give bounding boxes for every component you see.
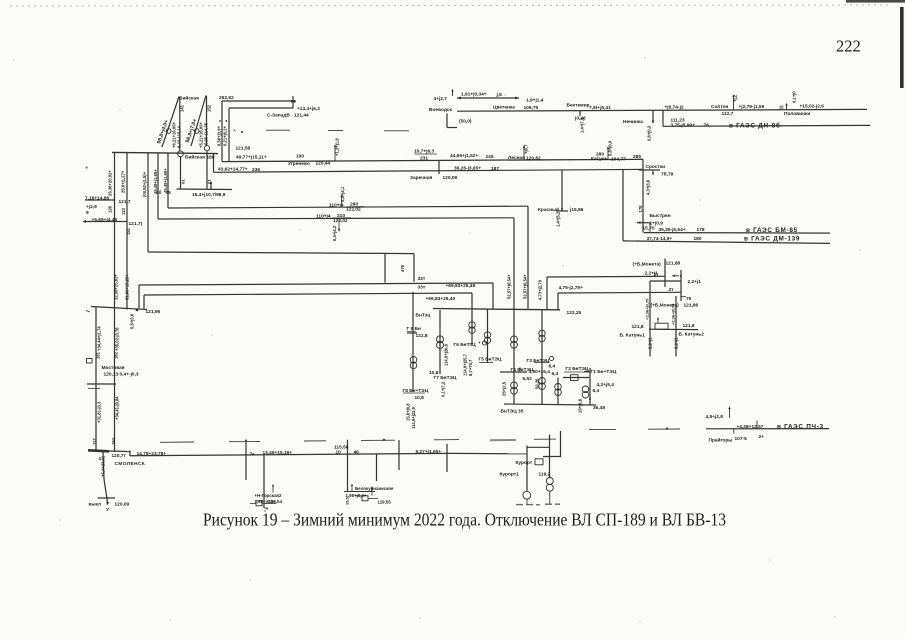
wire line 33t lower [144,293,472,295]
wire line L1 Ugrenevo-Lesnaya-Katun [222,159,643,161]
svg-text:+5,65+j4,45: +5,65+j4,45 [92,217,118,223]
svg-text:+15,02-j2,6: +15,02-j2,6 [800,104,825,110]
wire S-ZapadV loop top [222,100,293,102]
svg-text:Г3 БнТЭЦ: Г3 БнТЭЦ [527,358,550,364]
arrow G4 [519,369,521,373]
wire line to GAES DM-139 [623,241,830,244]
svg-text:+5,4+23,01: +5,4+23,01 [101,455,106,477]
svg-text:37,74-14,9+: 37,74-14,9+ [647,236,673,242]
svg-text:6,4: 6,4 [593,388,600,394]
arrowhead 15,75 up [649,222,651,225]
wire Katun2 stub down [675,330,677,357]
stub Belokurikhinskoye left [355,495,362,497]
transformer G3 upper circle [539,330,545,336]
svg-text:+2,36+j0,75: +2,36+j0,75 [671,303,676,325]
svg-text:7к: 7к [250,451,256,457]
breaker box N-Gorskaya [256,501,262,506]
svg-text:Прайгоры: Прайгоры [709,436,733,443]
wire drop N-Gorskaya [263,455,265,508]
svg-text:120,82: 120,82 [526,156,541,162]
wire tap Zarechnaya [438,160,440,174]
speck left margin [86,167,88,169]
wire Kurort1 drop lower [526,499,528,504]
arrowhead 4,5+j2,8 [728,406,730,409]
scan artifact: faint dotted line along top edge [10,5,890,6]
svg-text:187: 187 [491,166,499,172]
transformer Kurort upper circle [546,478,553,485]
svg-text:280: 280 [596,151,604,157]
wire tap at Srostki [639,169,660,171]
svg-text:2+: 2+ [759,434,765,440]
svg-text:Б. Катунь1: Б. Катунь1 [620,332,646,338]
arrowhead S-ZapadV top [291,100,295,103]
wire Kurort box tie [543,456,561,458]
wire left feeder 2 (vertical) [126,153,128,310]
transformer G7 lower circle [437,342,444,349]
wire drop Krasny [561,170,563,211]
wire line Voevodskoye-Polovinki 110kV [457,109,867,111]
generator G3 lower lower circle [539,383,546,390]
tick below N-Gorskaya [264,507,268,509]
svg-text:6,4: 6,4 [552,371,559,377]
stub Belokurikhinskoye right [368,498,378,500]
wire left drop of line 33t upper [138,285,140,308]
svg-text:4,2+j5,4: 4,2+j5,4 [597,382,615,388]
svg-text:76: 76 [704,123,710,129]
wire Mostovaya feeder A (vertical) [95,307,97,451]
svg-text:Г7 БнТЭЦ: Г7 БнТЭЦ [434,375,457,381]
wire dashed VL BV-13 seg4 [361,439,395,441]
svg-text:+31,81-j3,3: +31,81-j3,3 [97,401,102,423]
wire Kurort2 vertical upper [549,435,551,478]
svg-text:25+j2,5: 25+j2,5 [502,381,507,396]
svg-text:121,44: 121,44 [294,113,309,119]
svg-text:4,3+j3,6: 4,3+j3,6 [646,179,651,195]
wire bottom 110kV bus west part [130,453,450,455]
wire Kurort riser 2 [560,431,562,457]
svg-text:120,7т: 120,7т [112,453,127,459]
tick on line 210 [338,219,340,231]
arrowhead Krasny [561,209,563,212]
svg-text:7,5t+j5,41: 7,5t+j5,41 [589,105,611,111]
arrowhead tick 290 [340,194,342,197]
svg-text:33т: 33т [418,285,426,291]
svg-text:Половинки: Половинки [784,111,810,117]
tick near 121,58 [234,130,236,132]
wire G1 bottom stub [589,399,591,405]
wire drop x514 through BnTEC to 35kV bus [513,218,515,404]
svg-text:2т: 2т [669,287,675,293]
svg-text:236: 236 [252,167,260,173]
svg-text:Г8 Бн+ТЭЦ: Г8 Бн+ТЭЦ [403,388,429,394]
wire G3 column [541,310,543,405]
tick on line 290 [341,196,343,208]
wire line 110+j4 210 (to BnTEC) [158,218,514,219]
svg-text:476: 476 [400,264,405,272]
wire dashed VL BV-13 seg5 [434,439,459,441]
svg-text:Лесная: Лесная [508,155,525,161]
svg-text:+j2,9: +j2,9 [86,204,97,210]
svg-text:+Н-Горская2: +Н-Горская2 [255,493,282,498]
arrowhead Belokurikhinskoye 1 [351,484,353,487]
wire Biyskaya T2 to LV bus [206,151,208,190]
svg-text:Рисунок 19 – Зимний минимум 20: Рисунок 19 – Зимний минимум 2022 года. О… [203,510,726,530]
svg-text:2,2+j1: 2,2+j1 [688,279,702,285]
arrowhead left Tsvetenka [457,97,461,100]
underline G9 [407,330,417,332]
cross mark stem [245,440,247,442]
svg-text:Б. Катунь2: Б. Катунь2 [679,331,705,337]
svg-text:+69,83+25,40: +69,83+25,40 [426,296,456,302]
wire Katun1 vertical [649,281,651,329]
svg-text:7б,79: 7б,79 [661,171,674,178]
svg-text:5б: 5б [157,190,162,195]
wire B.Katun LV bus [649,328,698,330]
svg-text:Бийская: Бийская [185,153,205,160]
svg-text:121,95: 121,95 [146,309,161,315]
svg-text:121,88: 121,88 [666,261,681,267]
wire line 33t upper [139,283,493,285]
svg-text:(+Б,Монета): (+Б,Монета) [633,261,662,267]
wire drop Srostki [642,159,644,232]
wire tap 4,38 on PCh-3 line [756,421,758,429]
svg-text:39,26-j3,65+: 39,26-j3,65+ [454,165,481,171]
svg-text:180: 180 [207,155,215,161]
wire line 476 [148,252,414,254]
svg-text:120,04: 120,04 [269,499,283,504]
svg-text:+j2,79-j1,59: +j2,79-j1,59 [739,104,765,110]
wire S-ZapadV loop bottom [229,107,293,109]
wire tap 5,65+j4,45 [86,221,127,223]
arrowhead Smolensk feeder [106,502,109,506]
svg-text:178: 178 [697,227,705,233]
svg-text:4,50+15,4: 4,50+15,4 [529,369,551,375]
svg-text:3,75-j5,99+: 3,75-j5,99+ [671,122,696,128]
star mark on seg4 [383,439,385,441]
svg-text:120,09: 120,09 [115,502,130,508]
wire G2 feeder [563,377,589,379]
svg-text:114,9+j22,9: 114,9+j22,9 [411,406,416,429]
svg-text:126: 126 [108,205,113,213]
wire dashed segment VL SP-189 a [266,129,290,131]
wire Kurort2 vertical lower [549,491,551,503]
wire riser from Biyskaya bus to L2 [213,154,215,173]
svg-text:35,35-j6,54+: 35,35-j6,54+ [659,227,686,233]
wire tick G1 [584,371,590,373]
svg-text:Угренево: Угренево [288,161,310,167]
generator G upper circle x514 [511,382,518,389]
wire Mostovaya tap dash [88,388,100,390]
dot at B.Moneta corner [680,275,682,277]
svg-text:БнТЭЦ 35: БнТЭЦ 35 [501,408,524,414]
underline G3 [534,362,549,364]
arrowhead Neninka tap [652,121,654,124]
svg-text:(00,52+j1,5)+: (00,52+j1,5)+ [142,171,147,197]
svg-text:+4,38+12,57: +4,38+12,57 [737,424,764,430]
svg-text:15,4+j10,7/98,9: 15,4+j10,7/98,9 [192,192,226,198]
wire BnTEC 110kV bus [433,309,560,310]
arrowhead tick Katun [607,146,609,149]
wire riser x246 [245,442,247,481]
wire node 121,95 tie bus [91,307,147,310]
svg-text:Мостовая: Мостовая [102,365,125,371]
transformer G6 upper circle [469,322,475,328]
svg-text:j,5: j,5 [496,92,503,98]
svg-text:222: 222 [836,37,861,56]
svg-text:У: У [106,507,110,513]
wire Smolensk bus thick stub [88,450,109,451]
wire vertical Biyskaya T1 [179,97,181,152]
svg-text:Курорт: Курорт [516,460,533,466]
ground dash Kurort1 b [526,504,533,506]
svg-text:121,58: 121,58 [236,146,251,152]
svg-text:43,62+14,77+: 43,62+14,77+ [218,167,248,173]
strike line over 122,02a [345,206,364,208]
svg-text:112,7: 112,7 [722,111,734,117]
wire line 110+j4 290 (to BnTEC) [168,206,528,208]
transformer T514 upper circle [511,336,518,343]
wire Voevodskoye bracket horizontal [447,127,457,129]
tick Praygory [733,429,735,434]
arrow 4,5+j2,8 [729,408,731,418]
svg-text:б1: б1 [181,179,186,184]
ground dash Kurort1 c [536,504,540,506]
svg-text:120,09: 120,09 [443,175,458,181]
wire drop x547 to BnTEC bus [546,277,548,309]
arrowhead tap 5,65 [83,220,87,223]
svg-text:+j,2: +j,2 [733,94,738,102]
wire dashed VL BV-13 seg1 [160,441,194,443]
wire vertical Biyskaya T2 [206,96,208,146]
wire drop x558 to BnTEC bus end [557,293,559,309]
svg-text:119,2: 119,2 [539,471,551,477]
arrowhead right Tsvetenka [515,97,519,100]
svg-text:252,62: 252,62 [219,95,234,101]
svg-text:52,57+j6,54+: 52,57+j6,54+ [507,274,512,299]
wire stub N-Gorskaya box [250,503,256,505]
generator G3 lower upper circle [539,378,546,385]
wire dashed VL BV-13 seg8 [589,428,616,430]
tick arrow near 2,2+j1 [672,275,679,277]
svg-text:231: 231 [420,155,428,161]
svg-text:0,1+j0: 0,1+j0 [792,91,797,103]
generator G2 upper circle [555,384,562,391]
svg-text:121,8: 121,8 [683,323,695,329]
wire G6 column [471,309,473,344]
wire drop x376 [376,454,378,481]
svg-text:15+j9,8: 15+j9,8 [578,398,583,413]
wire drop x414 to line 33t [413,254,415,282]
wire Katun tie upper [650,280,681,282]
svg-text:162: 162 [114,351,119,359]
generator G2 lower circle [555,389,562,396]
arrowhead N-Gorskaya2 [272,484,274,487]
scan artifact: right margin black bar [900,7,904,88]
svg-text:120,44: 120,44 [316,160,331,166]
svg-text:4,75-j2,79+: 4,75-j2,79+ [559,285,584,291]
scan artifact: dark top-right edge strip [846,0,905,3]
svg-text:+2,36+j0,79: +2,36+j0,79 [645,298,650,320]
wire drop x493 to BnTEC bus [492,283,494,309]
svg-text:121,7): 121,7) [129,221,143,227]
svg-text:+j0,7: +j0,7 [524,144,529,154]
wire riser x399 [398,440,400,470]
arrowhead B.Katun box [657,317,659,320]
breaker box Mostovaya [87,359,93,364]
wire dashed VL BV-13 seg6 [490,439,516,441]
tick j0,7 at Lesnaya [523,147,525,160]
svg-text:112: 112 [92,438,97,445]
tick 1,3+j1,8 on L1 [334,146,336,161]
svg-text:1,91+j0,34+: 1,91+j0,34+ [461,92,487,98]
wire Biyskaya 110kV bus [112,152,218,153]
wire B.Moneta drop 1 [664,259,666,288]
svg-text:+j0,74-j2: +j0,74-j2 [665,105,684,111]
wire dashed segment VL SP-189 c [384,130,409,132]
arrowhead Belokurikhinskoye 2 [371,486,373,489]
svg-text:5,5+j3,6: 5,5+j3,6 [130,313,135,329]
svg-text:7,16+14,86: 7,16+14,86 [85,195,109,201]
breaker box Kurort [535,459,543,465]
svg-text:75: 75 [686,296,692,302]
wire measurement arrow line Tsvetenka [457,97,519,99]
svg-text:в ГАЭС ДН-8б: в ГАЭС ДН-8б [729,121,781,129]
arrowhead 2,2 tick [672,275,675,277]
svg-text:Ненинка: Ненинка [623,119,643,125]
wire slant branch Biyskaya T2 [191,96,206,147]
ground dash Kurort2 b [555,503,560,505]
svg-text:122,25: 122,25 [567,310,582,316]
svg-text:Г5 БнТЭЦ: Г5 БнТЭЦ [479,356,502,362]
svg-text:Заречная: Заречная [410,175,433,181]
svg-text:33т: 33т [418,276,426,282]
wire Belokurikhinskoye bus [344,491,375,493]
svg-text:109,75: 109,75 [524,105,539,111]
dot before G6 symbol [479,342,481,344]
arrowhead 4+j2,7 [451,89,453,92]
wire S-ZapadV left vertical 2 [228,108,230,161]
wire tap Bekhtemir [579,111,581,116]
wire line to GAES DN-86 [663,124,870,127]
svg-text:49,77+j15,11+: 49,77+j15,11+ [236,155,267,161]
wire Katun1 stub down [649,330,651,357]
transformer G9 lower circle [410,362,417,369]
svg-text:121,86: 121,86 [684,303,699,309]
star mark above 36,48 [589,398,591,400]
svg-text:Быстрян: Быстрян [650,213,671,219]
svg-text:Бехтемир: Бехтемир [567,103,590,109]
svg-text:98,8+j7,0+: 98,8+j7,0+ [185,118,199,143]
svg-text:С-ЗападВ: С-ЗападВ [267,113,290,119]
strike line over 122,02b [332,217,351,219]
arrowhead G4 [519,367,521,370]
svg-text:СМОЛЕНСК: СМОЛЕНСК [115,461,146,467]
tick at node 121,95 [86,311,90,313]
svg-text:114,9+j25,7: 114,9+j25,7 [463,353,468,376]
wire tap 7,16+14,86 [85,199,115,201]
arrowhead Srostki tap [652,173,654,176]
wire line to B.Moneta upper [547,275,665,278]
underline G2 [564,371,590,373]
generator circle Kurort1 [523,491,531,499]
wire junction drop to GAES DN-86 line [662,110,664,126]
transformer G7 upper circle [437,336,444,343]
svg-text:122,02: 122,02 [333,218,348,224]
svg-text:1,4+j7,9: 1,4+j7,9 [580,117,585,133]
wire tick Krasny [556,210,568,212]
wire arrow tap on Biyskaya LV bus [210,184,212,190]
svg-text:4+j2,7: 4+j2,7 [434,96,448,102]
wire drop x472 to BnTEC bus [471,293,473,309]
wire dashed VL BV-13 seg7 [534,438,556,440]
transformer circle on slant T2 [194,129,199,134]
svg-text:1+j0,9: 1+j0,9 [650,220,664,226]
wire arrow at Srostki tap [652,170,654,175]
svg-text:10: 10 [336,450,342,456]
svg-text:119,55: 119,55 [378,499,392,504]
svg-text:285: 285 [633,154,641,160]
asterisk mark after Biyskaya [241,131,243,133]
transformer Biyskaya T1 on bus [178,151,184,157]
breaker box Belokurikhinskoye [362,496,368,501]
wire S-ZapadV right drop [292,96,294,108]
star mark on seg9 [666,428,668,430]
tick dot S-Zapad v1 [219,120,221,122]
wire G1 column [589,368,591,405]
svg-text:122,8: 122,8 [416,333,428,339]
wire drop x623 to GAES DM-139 line [622,170,624,241]
svg-text:Сростки: Сростки [646,164,666,170]
underline G5 [479,362,493,364]
svg-text:4,73+j2,79: 4,73+j2,79 [538,279,543,300]
svg-text:4,5+j2,8: 4,5+j2,8 [706,414,724,420]
svg-text:БнТэц: БнТэц [416,313,431,319]
underline 10,7 label [415,153,438,155]
wire Mostovaya tap [87,383,116,385]
svg-text:0,21+j0,2+: 0,21+j0,2+ [223,125,228,146]
svg-text:+69,83+25,48: +69,83+25,48 [446,283,476,289]
svg-text:123: 123 [121,207,126,215]
transformer G5 lower circle [484,337,490,343]
wire line L2 Zarechnaya-Katun [214,169,643,172]
wire slant branch Biyskaya T1 [162,97,179,148]
wire line to B.Moneta lower [558,291,681,294]
svg-text:9,27+j1,65+: 9,27+j1,65+ [416,449,442,455]
svg-text:151: 151 [126,227,131,235]
svg-text:121,8: 121,8 [632,324,644,330]
svg-text:+1,3+j1,8: +1,3+j1,8 [335,138,340,156]
svg-text:Курорт1: Курорт1 [500,471,520,477]
wire tap Neninka [652,111,654,123]
svg-text:Воеводск: Воеводск [429,107,452,113]
svg-text:0,8+j0,9: 0,8+j0,9 [608,140,613,156]
svg-text:2т: 2т [654,272,660,278]
wire Voevodskoye bracket vertical [446,114,448,128]
svg-text:j15,86: j15,86 [569,207,584,213]
svg-text:5,4+j4,1: 5,4+j4,1 [340,186,345,202]
svg-text:36,48: 36,48 [593,405,605,411]
generator G lower circle x514 [511,387,518,394]
arrow into B.Katun box [657,319,659,324]
wire riser to line 476 [147,153,149,252]
ground dash Kurort1 a [516,504,523,506]
wire stub N-Gorskaya box right [262,503,276,505]
wire drop x528 to BnTEC bus [527,206,529,309]
arrow Belokurikhinskoye 1 [351,485,353,492]
svg-text:1,4+j5,2: 1,4+j5,2 [556,211,561,227]
svg-text:в ГАЭС ДМ-139: в ГАЭС ДМ-139 [744,236,800,243]
wire riser to line 110+j4 210 [157,153,159,219]
